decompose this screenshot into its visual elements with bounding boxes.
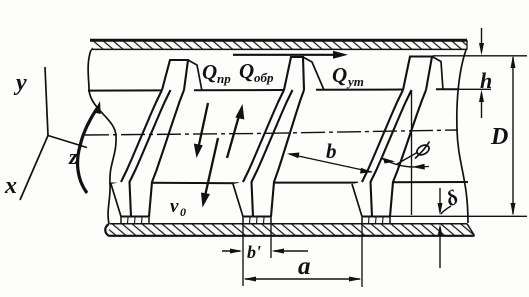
flight 1 foot bottom edge bbox=[121, 215, 149, 217]
barrel top wall hatching bbox=[92, 41, 467, 49]
barrel bottom wall bottom border bbox=[105, 224, 474, 236]
flight 1 white body bbox=[111, 60, 188, 217]
svg-text:x: x bbox=[4, 173, 17, 199]
barrel top wall right end bbox=[466, 40, 468, 50]
barrel bottom wall hatching bbox=[108, 224, 475, 236]
flight 3 mid edge bbox=[371, 90, 412, 217]
D bottom extension line bbox=[390, 215, 527, 217]
screw core top silhouette line bbox=[88, 89, 458, 90]
h dimension upper arrow bbox=[481, 28, 483, 52]
screw axis centerline bbox=[85, 130, 458, 135]
flight 3 right edge bbox=[390, 90, 426, 217]
coordinate axis z bbox=[48, 136, 87, 148]
velocity arrow down C bbox=[205, 138, 218, 196]
flight 2 mid edge bbox=[252, 90, 293, 217]
svg-text:y: y bbox=[13, 70, 27, 96]
barrel top wall bottom border bbox=[91, 48, 467, 50]
svg-text:пр: пр bbox=[217, 71, 231, 86]
flight 2 top back edge bbox=[303, 57, 324, 90]
svg-text:b': b' bbox=[247, 242, 261, 262]
svg-text:v: v bbox=[170, 196, 179, 217]
pressure flow arrow up B bbox=[227, 114, 240, 158]
flight 3 tip face shading bbox=[369, 218, 384, 224]
delta dimension arrows bbox=[439, 188, 441, 212]
screw body right break edge bbox=[457, 50, 468, 223]
flight 3 tip face sides bbox=[362, 217, 390, 224]
svg-text:z: z bbox=[68, 144, 78, 169]
flight 2 white body bbox=[233, 57, 304, 217]
D dimension line bbox=[512, 57, 514, 214]
label phi bbox=[415, 142, 431, 159]
h dimension extension line bottom bbox=[444, 88, 491, 90]
h dimension lower arrow bbox=[481, 93, 483, 118]
flight 3 top back edge bbox=[432, 57, 443, 91]
phi vertical reference line bbox=[411, 91, 413, 215]
flight 3 left edge bbox=[362, 90, 403, 182]
svg-text:0: 0 bbox=[180, 205, 186, 219]
flight 1 left edge bbox=[121, 90, 162, 182]
svg-text:D: D bbox=[490, 124, 508, 150]
flight 2 left edge bbox=[243, 90, 284, 182]
phi angle arc bbox=[382, 159, 414, 168]
b' extension lines bbox=[242, 224, 244, 286]
flight 2 tip face shading bbox=[250, 218, 265, 224]
flight 1 tip face sides bbox=[121, 217, 149, 224]
svg-text:Q: Q bbox=[332, 63, 347, 87]
flight 1 tip trapezoid bbox=[162, 60, 188, 90]
flight 1 tip face shading bbox=[128, 218, 143, 224]
flight 1 top back edge bbox=[188, 60, 202, 91]
flight 3 tip trapezoid bbox=[403, 57, 432, 91]
svg-text:обр: обр bbox=[254, 70, 274, 85]
drag flow arrow down A bbox=[199, 103, 209, 147]
flight 3 foot bottom edge bbox=[362, 215, 390, 217]
svg-text:Q: Q bbox=[202, 60, 217, 84]
svg-text:h: h bbox=[480, 68, 492, 93]
leakage flow arrow top bbox=[233, 54, 336, 56]
coordinate axis x bbox=[20, 136, 48, 201]
flight 3 white body bbox=[352, 57, 432, 217]
barrel bottom wall top border bbox=[110, 223, 467, 225]
flight 2 tip trapezoid bbox=[284, 57, 304, 90]
flight 2 foot back edge bbox=[233, 184, 243, 217]
barrel top wall top border bbox=[90, 39, 467, 42]
flight 2 right edge bbox=[271, 90, 304, 217]
b dimension arrow bbox=[289, 154, 372, 172]
flight 1 right edge bbox=[149, 90, 184, 217]
b' dimension arrows bbox=[222, 250, 240, 252]
flight 1 mid edge bbox=[130, 90, 171, 217]
phi leader bbox=[397, 152, 418, 164]
screw body left break edge bbox=[88, 50, 116, 224]
flight 2 tip face sides bbox=[243, 217, 271, 224]
svg-text:a: a bbox=[298, 253, 311, 280]
svg-text:Q: Q bbox=[239, 59, 254, 83]
a dimension line bbox=[245, 278, 360, 280]
svg-text:b: b bbox=[326, 139, 337, 163]
svg-text:ут: ут bbox=[346, 74, 364, 89]
h dimension extension line top bbox=[433, 55, 527, 57]
coordinate axis y bbox=[45, 67, 48, 136]
flight 3 foot back edge bbox=[352, 184, 362, 217]
flight 2 foot bottom edge bbox=[243, 215, 271, 217]
delta leader bbox=[441, 206, 451, 214]
screw core bottom silhouette line bbox=[109, 182, 468, 184]
flight 1 foot back edge bbox=[111, 184, 121, 217]
barrel bottom wall right end bbox=[467, 224, 475, 236]
rotation direction arrow bbox=[78, 107, 98, 193]
